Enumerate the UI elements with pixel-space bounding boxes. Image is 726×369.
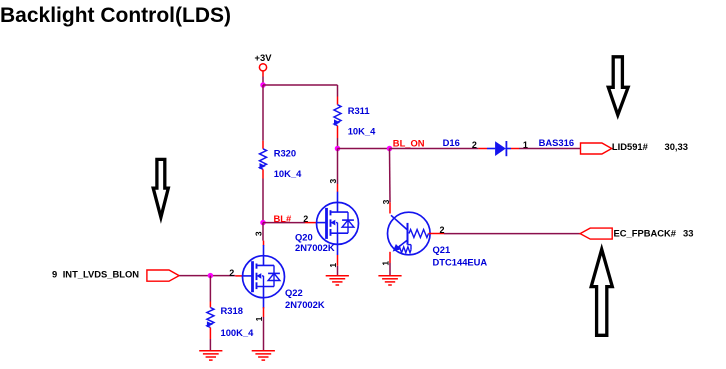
junction R318 tap xyxy=(208,273,214,279)
pin 1 (D16 cathode) xyxy=(523,140,528,150)
transistor Q22 (N-MOSFET 2N7002K) xyxy=(243,245,285,308)
wire left branch to R320 xyxy=(262,85,264,141)
pin 9 label xyxy=(52,268,57,279)
annotation arrow up-right xyxy=(591,249,612,335)
value BAS316 (D16) xyxy=(539,137,574,148)
svg-text:Q21: Q21 xyxy=(433,244,451,255)
net label BL# xyxy=(274,213,292,224)
wire INT_LVDS_BLON to Q22 gate xyxy=(179,275,235,277)
connector output port EC_FPBACK# xyxy=(580,228,612,239)
svg-text:INT_LVDS_BLON: INT_LVDS_BLON xyxy=(63,268,140,279)
net label BL_ON xyxy=(393,137,425,148)
svg-text:EC_FPBACK#: EC_FPBACK# xyxy=(614,227,677,238)
pin 1 (Q20 source) xyxy=(328,263,338,268)
resistor R320 xyxy=(260,141,267,179)
svg-text:3: 3 xyxy=(328,179,338,184)
ground under Q21 xyxy=(378,276,401,285)
value DTC144EUA (Q21) xyxy=(433,256,488,267)
wire BL_ON to D16 xyxy=(390,148,479,150)
value 10K_4 (R320) xyxy=(274,168,302,179)
wire Q20 source to ground xyxy=(337,266,339,276)
transistor Q21 (DTC144EUA) xyxy=(388,202,445,263)
value 2N7002K (Q22) xyxy=(285,299,325,310)
wire BL# down to Q22 drain xyxy=(262,223,264,241)
connector input port INT_LVDS_BLON xyxy=(147,270,179,281)
svg-text:DTC144EUA: DTC144EUA xyxy=(433,256,488,267)
pin 3 (Q20 drain) xyxy=(328,179,338,184)
pin 2 (Q20 gate) xyxy=(303,214,308,224)
label Q22 xyxy=(285,287,303,298)
annotation arrow down-left xyxy=(153,159,168,217)
diode D16 xyxy=(478,141,519,156)
resistor R311 xyxy=(334,97,341,139)
label Q21 xyxy=(433,244,451,255)
svg-text:R311: R311 xyxy=(348,105,370,116)
svg-text:2: 2 xyxy=(440,225,445,235)
pin 2 (Q22 gate) xyxy=(229,268,234,278)
power +3V xyxy=(255,52,273,85)
title xyxy=(0,4,231,27)
svg-text:2: 2 xyxy=(472,140,477,150)
svg-text:2N7002K: 2N7002K xyxy=(285,299,325,310)
ground under Q20 xyxy=(326,276,349,285)
svg-text:1: 1 xyxy=(254,316,264,321)
pin 2 (D16 anode) xyxy=(472,140,477,150)
svg-text:33: 33 xyxy=(683,227,693,238)
gate stub Q20 xyxy=(305,222,317,224)
svg-text:BL_ON: BL_ON xyxy=(393,137,425,148)
ground under Q22 xyxy=(252,351,275,360)
label D16 xyxy=(443,137,460,148)
wire D16 to LID591# port xyxy=(519,148,581,150)
wire +3V rail horizontal xyxy=(263,84,338,86)
value 2N7002K (Q20) xyxy=(295,242,335,253)
value 10K_4 (R311) xyxy=(348,125,376,136)
resistor R318 xyxy=(207,302,214,340)
net name INT_LVDS_BLON xyxy=(63,268,140,279)
svg-text:Q22: Q22 xyxy=(285,287,303,298)
annotation arrow down-right xyxy=(608,57,628,115)
svg-text:1: 1 xyxy=(381,261,391,266)
net name LID591# xyxy=(612,141,649,152)
label Q20 xyxy=(295,232,313,243)
svg-text:R320: R320 xyxy=(274,147,296,158)
junction BL_ON at Q20 drain xyxy=(335,146,341,152)
svg-text:Q20: Q20 xyxy=(295,232,313,243)
junction +3V rail xyxy=(260,82,266,88)
ground under R318 xyxy=(199,351,222,360)
svg-text:30,33: 30,33 xyxy=(665,141,688,152)
svg-text:10K_4: 10K_4 xyxy=(348,125,376,136)
svg-text:R318: R318 xyxy=(221,305,243,316)
value 100K_4 (R318) xyxy=(221,327,255,338)
transistor Q20 (N-MOSFET 2N7002K) xyxy=(317,192,359,255)
wire Q21 emitter to ground xyxy=(389,263,391,276)
pin 3 (Q22 drain) xyxy=(254,231,264,236)
label R311 xyxy=(348,105,370,116)
wire R318 to ground xyxy=(209,339,211,351)
wire BL_ON down to Q20 drain xyxy=(337,149,339,185)
wire BL_ON down to Q21 collector xyxy=(389,149,392,203)
net name EC_FPBACK# xyxy=(614,227,677,238)
source stub Q20 xyxy=(337,255,339,266)
drain stub Q20 xyxy=(337,184,339,192)
pin 1 (Q21 emitter) xyxy=(381,261,391,266)
wire Q21 base to EC_FPBACK# port xyxy=(444,233,580,235)
svg-text:Backlight Control(LDS): Backlight Control(LDS) xyxy=(0,4,231,27)
svg-text:10K_4: 10K_4 xyxy=(274,168,302,179)
connector output port LID591# xyxy=(581,143,612,154)
svg-text:9: 9 xyxy=(52,268,57,279)
drain stub Q22 xyxy=(263,241,265,246)
wire R320 to BL# node xyxy=(262,179,264,223)
wire Q22 source to ground xyxy=(263,317,265,351)
pin 1 (Q22 source) xyxy=(254,316,264,321)
wire tap down to R318 xyxy=(209,276,211,302)
sheet refs 30,33 xyxy=(665,141,688,152)
pin 2 (Q21 base) xyxy=(440,225,445,235)
wire rail to R311 xyxy=(337,85,339,97)
svg-text:1: 1 xyxy=(328,263,338,268)
pin 3 (Q21 collector) xyxy=(381,199,391,204)
label R318 xyxy=(221,305,243,316)
svg-text:BAS316: BAS316 xyxy=(539,137,574,148)
svg-text:+3V: +3V xyxy=(255,52,273,63)
junction BL# node xyxy=(260,220,266,226)
wire BL# to Q20 gate xyxy=(263,222,305,224)
svg-text:2: 2 xyxy=(229,268,234,278)
junction BL_ON at Q21 branch xyxy=(387,146,393,152)
wire R311 to BL_ON node xyxy=(337,138,339,149)
svg-text:D16: D16 xyxy=(443,137,460,148)
svg-text:2N7002K: 2N7002K xyxy=(295,242,335,253)
wire BL_ON segment xyxy=(338,148,390,150)
sheet ref 33 xyxy=(683,227,693,238)
svg-text:3: 3 xyxy=(254,231,264,236)
label R320 xyxy=(274,147,296,158)
svg-text:LID591#: LID591# xyxy=(612,141,649,152)
svg-text:100K_4: 100K_4 xyxy=(221,327,255,338)
source stub Q22 xyxy=(263,307,265,317)
gate stub Q22 xyxy=(235,275,242,277)
